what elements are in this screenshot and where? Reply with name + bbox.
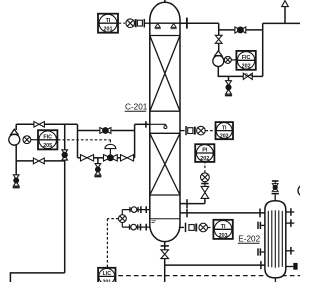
instrument LIC-201	[98, 268, 115, 282]
signal LT to LIC	[107, 219, 118, 268]
temperature element TI-203 circle-X	[199, 223, 208, 232]
svg-text:203: 203	[219, 233, 228, 239]
pump P-202	[213, 51, 224, 67]
wire vent cap stub	[274, 181, 276, 184]
column C-201 shell	[150, 2, 180, 241]
wire feed line	[16, 123, 77, 125]
thermowell body	[137, 20, 142, 26]
wire bottoms down	[164, 259, 166, 282]
wire bypass left riser	[77, 124, 79, 158]
flow element pump discharge circle-X	[23, 136, 31, 144]
flange PI	[201, 183, 208, 185]
wire PI stub2	[204, 182, 206, 187]
wire pump suction	[15, 124, 17, 130]
svg-text:202: 202	[220, 134, 229, 140]
level gauge vertical	[121, 210, 123, 228]
demister triangle left	[155, 24, 160, 28]
flange bottoms left	[186, 209, 188, 218]
signal TI-201	[119, 22, 125, 24]
node T feed-drain	[64, 124, 66, 150]
wire overhead down	[218, 23, 220, 35]
svg-text:TI: TI	[106, 18, 111, 24]
wire FE to FIC-202	[231, 59, 236, 61]
flange bottoms right	[259, 209, 261, 218]
nozzle column top	[164, 0, 166, 3]
wire pump discharge horizontal	[16, 160, 64, 162]
control valve FV body	[104, 155, 118, 161]
wire reflux loop bottom right	[252, 75, 262, 77]
svg-text:202: 202	[242, 64, 251, 70]
nozzle reboiler right 2	[286, 219, 295, 227]
reboiler tubes	[268, 210, 282, 268]
wire vent header top	[263, 22, 300, 24]
wire drain stub	[228, 76, 230, 80]
wire vent header vertical	[262, 23, 264, 76]
flange reboiler vent	[272, 193, 279, 195]
label P-4	[245, 73, 252, 78]
level gauge top bars	[130, 207, 138, 212]
pump P-201	[9, 129, 20, 145]
level transmitter circle-X	[119, 215, 127, 223]
wire pump discharge	[15, 145, 17, 161]
demister triangle right	[171, 24, 176, 28]
instrument TI-202	[216, 122, 234, 140]
reboiler E-202 shell	[265, 201, 286, 278]
wire TI-203 tap	[179, 226, 184, 228]
wire PI tap stub	[180, 203, 205, 205]
liquid level line	[150, 218, 180, 220]
instrument circle at edge	[298, 185, 309, 196]
wire manifold segment 2	[94, 157, 104, 159]
wire FE to FIC-205	[31, 139, 38, 141]
thermowell TI-203 body	[189, 225, 194, 231]
valve manifold right	[121, 155, 134, 161]
wire manifold segment 1	[78, 157, 81, 159]
wire pump drain	[15, 161, 17, 175]
wire bypass top left	[78, 130, 100, 132]
svg-text:TI: TI	[221, 224, 226, 230]
wire manifold segment 4	[134, 157, 135, 159]
valve drain header (ball)	[62, 150, 68, 160]
valve reflux riser	[215, 35, 222, 43]
wire manifold drain stub	[97, 158, 99, 164]
signal FIC-205 to valve	[58, 140, 111, 144]
thermowell TI-202 body	[188, 128, 193, 134]
nozzle reboiler left upper capped	[258, 222, 265, 229]
level gauge bottom valve circle	[131, 224, 137, 230]
svg-text:202: 202	[200, 156, 209, 162]
instrument TI-201	[98, 14, 118, 33]
level gauge bottom branch	[122, 226, 150, 228]
nozzle reboiler left lower capped	[258, 248, 265, 255]
flange TI-202	[185, 126, 187, 135]
wire vent riser	[284, 7, 286, 24]
level gauge bottom bars	[130, 224, 138, 229]
nozzle reboiler right 3	[286, 247, 295, 255]
flange bottom outlet	[161, 245, 169, 247]
level mark	[152, 221, 157, 223]
thermowell TI-202 filled flange	[194, 127, 196, 135]
manifold drain cap	[94, 176, 101, 178]
pump drain cap	[13, 187, 20, 189]
thermowell filled flange	[135, 19, 137, 27]
wire bypass top right	[111, 130, 135, 132]
level gauge top flanges	[141, 206, 146, 213]
valve pump discharge	[33, 158, 44, 164]
wire pump to FE	[223, 59, 226, 61]
level gauge top branch	[122, 209, 150, 211]
reboiler vent cap	[272, 180, 279, 182]
label C-201	[125, 103, 148, 112]
packing bed 2	[150, 133, 180, 195]
svg-text:TI: TI	[222, 125, 227, 131]
flange TI-203	[185, 223, 187, 232]
wire reflux loop bottom left	[218, 67, 243, 77]
instrument PI-202	[195, 144, 214, 162]
svg-text:201: 201	[104, 27, 113, 33]
thermowell TI-203 filled flange	[195, 224, 197, 232]
svg-text:C-201: C-201	[125, 103, 148, 112]
packing bed 1	[150, 36, 180, 112]
flange feed nozzle	[145, 121, 147, 128]
level gauge top valve circle	[131, 207, 137, 213]
wire distillate line left part	[219, 29, 235, 31]
flange PI tap	[186, 199, 188, 208]
wire feed to column	[135, 123, 150, 125]
valve reflux loop	[243, 73, 252, 79]
svg-text:PI: PI	[202, 148, 208, 154]
instrument FIC-205	[38, 130, 57, 149]
svg-text:FIC: FIC	[242, 55, 251, 61]
reboiler vent valve with ball	[272, 184, 278, 192]
svg-text:LIC: LIC	[103, 271, 112, 277]
flange reboiler inlet	[260, 261, 262, 269]
wire bottoms to reboiler	[165, 264, 265, 266]
wire PI riser	[204, 198, 206, 203]
wire drain header bottom L	[10, 273, 64, 282]
wire TE to column	[144, 22, 151, 24]
wire manifold segment 3	[117, 157, 120, 159]
nozzle reboiler bottom	[274, 278, 276, 282]
valve manifold left	[81, 155, 94, 161]
control valve actuator	[105, 144, 116, 155]
wire column bottom outlet	[164, 242, 166, 250]
flange overhead	[186, 18, 188, 29]
svg-text:FIC: FIC	[43, 134, 52, 140]
wire reboiler vent stub	[274, 195, 276, 201]
valve feed block	[34, 122, 45, 128]
nozzle reboiler right 1	[286, 208, 295, 216]
wire bypass right riser	[134, 124, 136, 158]
drain cap	[225, 95, 232, 97]
manifold drain valve with ball	[95, 164, 101, 176]
signal TE to TI-202	[206, 130, 216, 132]
signal TE to TI-203	[208, 227, 213, 229]
level gauge bottom flanges	[141, 224, 147, 231]
wire valve to pump	[218, 43, 220, 51]
temperature element TI-202 circle-X	[197, 126, 206, 135]
wire drain header vertical	[64, 160, 66, 273]
wire overhead line	[180, 22, 219, 24]
nozzle reboiler right 4 capped	[286, 263, 298, 270]
valve bottom outlet	[161, 250, 169, 259]
pump drain valve with ball	[13, 175, 19, 186]
signal PE to PI-202	[204, 162, 206, 173]
svg-text:E-202: E-202	[238, 235, 260, 244]
label E-202	[238, 235, 261, 244]
valve distillate (ball)	[235, 27, 246, 33]
flow element circle-X	[224, 56, 231, 63]
battery limit dashed line	[118, 275, 300, 277]
valve PI isolation	[201, 186, 209, 198]
temperature element TE (circle-X)	[126, 19, 135, 28]
wire distillate line right part	[246, 29, 263, 31]
vent arrow	[282, 1, 289, 7]
demister support line	[150, 22, 180, 24]
thermowell flange tick	[143, 19, 145, 28]
drain valve with ball	[226, 81, 232, 94]
instrument TI-203	[213, 220, 232, 239]
feed pipe inside column	[150, 124, 167, 128]
wire TI-202 tap	[180, 130, 185, 132]
pressure element circle-X	[201, 173, 210, 182]
wire bottoms to E-202	[180, 212, 265, 214]
valve bypass (ball)	[100, 128, 111, 134]
instrument FIC-202	[236, 51, 255, 70]
svg-text:205: 205	[43, 143, 52, 149]
